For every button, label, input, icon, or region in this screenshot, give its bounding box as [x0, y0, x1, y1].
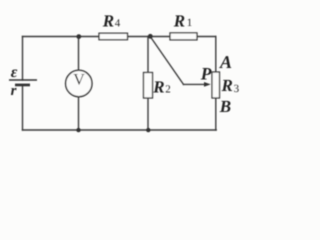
junction top voltmeter: [76, 34, 81, 39]
wire top: [23, 36, 216, 38]
svg-text:R: R: [102, 12, 114, 31]
resistor R3 box (potentiometer track): [212, 72, 220, 98]
svg-text:1: 1: [187, 17, 193, 29]
svg-text:P: P: [200, 63, 212, 83]
wire left lower: [22, 86, 24, 130]
junction bottom R2: [146, 128, 150, 132]
svg-text:2: 2: [165, 84, 171, 96]
wire right lower: [215, 98, 217, 130]
svg-text:R: R: [173, 12, 185, 31]
svg-text:V: V: [73, 72, 85, 89]
voltmeter V: [66, 70, 92, 96]
wire left upper: [22, 37, 24, 81]
wire right upper: [215, 37, 217, 73]
wire voltmeter bottom: [78, 97, 80, 131]
svg-text:B: B: [219, 97, 231, 116]
svg-text:ε: ε: [11, 64, 18, 81]
wire R2 branch bottom: [147, 98, 149, 130]
wire wiper horizontal: [184, 83, 206, 85]
junction bottom voltmeter: [76, 128, 80, 132]
junction top R2/diagonal: [148, 34, 153, 39]
svg-text:4: 4: [115, 18, 121, 30]
wire voltmeter top: [78, 37, 80, 71]
svg-text:r: r: [11, 83, 17, 99]
resistor R1 box: [170, 33, 197, 40]
resistor R2 box: [144, 73, 153, 99]
svg-text:A: A: [219, 52, 232, 72]
wire R2 branch top: [147, 37, 149, 73]
wire bottom: [23, 129, 217, 131]
svg-text:3: 3: [234, 83, 240, 95]
svg-text:R: R: [152, 78, 164, 97]
wire wiper diagonal: [150, 37, 183, 85]
resistor R4 box: [99, 33, 128, 40]
battery cell (emf source): [9, 80, 37, 86]
svg-text:R: R: [221, 76, 233, 95]
wiper arrowhead P: [204, 82, 211, 87]
